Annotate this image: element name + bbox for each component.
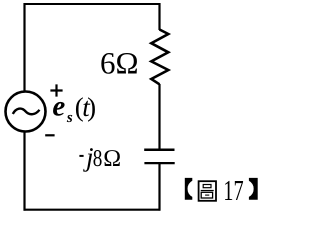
svg-text:e: e <box>52 91 65 123</box>
resistor R1 zigzag <box>151 30 168 85</box>
minus polarity mark <box>45 134 54 136</box>
wire left upper <box>23 3 25 91</box>
svg-text:6Ω: 6Ω <box>100 46 139 81</box>
wire right middle (resistor to capacitor) <box>158 84 160 149</box>
svg-text:j: j <box>83 142 94 172</box>
wire left lower <box>23 132 25 211</box>
wire right lower (capacitor to bottom) <box>158 164 160 211</box>
wire bottom <box>24 209 161 211</box>
svg-text:s: s <box>66 110 73 126</box>
caption right bracket 】 <box>249 178 258 200</box>
label -j8Ω minus <box>79 155 83 157</box>
capacitor C1 bottom plate <box>144 162 174 164</box>
svg-text:17: 17 <box>223 175 243 207</box>
svg-text:): ) <box>87 92 96 122</box>
source U1 circle (AC voltage source) <box>6 92 46 132</box>
svg-text:Ω: Ω <box>103 146 121 172</box>
svg-text:8: 8 <box>93 146 103 172</box>
plus polarity mark <box>50 84 62 96</box>
caption character 圖 (figure) <box>199 181 216 201</box>
source U1 sine symbol <box>13 109 40 115</box>
wire right top stub <box>158 3 160 30</box>
wire top <box>24 3 161 5</box>
label e_s(t) <box>52 91 96 126</box>
capacitor C1 top plate <box>144 149 174 152</box>
caption left bracket 【 <box>185 178 193 200</box>
label -j8Ω digit 8 <box>93 146 103 172</box>
